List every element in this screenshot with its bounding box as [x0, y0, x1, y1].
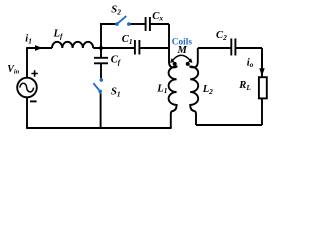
svg-text:L2: L2: [202, 84, 213, 96]
svg-text:i1: i1: [25, 34, 32, 46]
svg-text:RL: RL: [238, 80, 251, 92]
svg-text:Vin: Vin: [7, 64, 19, 76]
svg-text:S1: S1: [111, 86, 121, 98]
svg-text:L1: L1: [156, 83, 167, 95]
svg-text:io: io: [247, 57, 254, 69]
svg-text:Lf: Lf: [53, 29, 64, 41]
svg-text:Cf: Cf: [111, 55, 122, 67]
svg-text:C1: C1: [122, 34, 133, 46]
svg-text:Coils: Coils: [172, 38, 193, 48]
svg-text:C2: C2: [216, 30, 227, 42]
svg-text:Cx: Cx: [152, 11, 163, 23]
svg-text:S2: S2: [111, 5, 121, 17]
